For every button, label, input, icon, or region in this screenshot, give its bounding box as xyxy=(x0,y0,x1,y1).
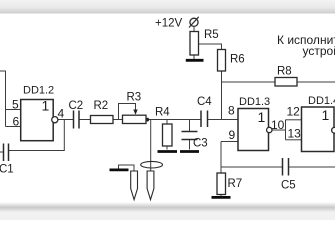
svg-text:R4: R4 xyxy=(155,107,170,119)
capacitor C4 plates xyxy=(201,111,208,128)
wire pin9 down to R7 xyxy=(220,142,222,174)
svg-text:8: 8 xyxy=(228,104,235,118)
wire R5 to R6 xyxy=(199,44,222,50)
ground under R4 xyxy=(158,150,178,153)
wire C1 left stub xyxy=(0,151,4,153)
wire R5 to ground xyxy=(193,55,195,59)
wire C3 bottom stub xyxy=(189,140,191,150)
svg-text:R2: R2 xyxy=(94,100,109,112)
capacitor C1 plates xyxy=(4,144,9,162)
sensor ellipse xyxy=(141,161,163,168)
potentiometer R3 arrow xyxy=(133,110,137,115)
ground bar left electrode xyxy=(110,168,129,171)
ground under R7 xyxy=(212,196,231,199)
svg-text:R5: R5 xyxy=(204,29,219,41)
ground under R5 xyxy=(186,59,204,62)
svg-text:9: 9 xyxy=(229,128,236,142)
svg-text:1: 1 xyxy=(42,98,50,114)
wire C2 to R2 xyxy=(79,119,91,121)
svg-text:1: 1 xyxy=(322,107,330,123)
wire R8 to right edge xyxy=(297,81,335,83)
svg-text:10: 10 xyxy=(271,118,285,132)
resistor R5 xyxy=(190,32,199,56)
wire pin9 xyxy=(221,141,238,143)
wire R3 wiper loop xyxy=(119,104,136,120)
svg-text:DD1.2: DD1.2 xyxy=(23,85,54,97)
svg-text:C3: C3 xyxy=(193,138,208,150)
svg-text:+12V: +12V xyxy=(155,18,183,30)
wire R6 down to node xyxy=(221,71,223,120)
capacitor C2 plates xyxy=(74,111,80,129)
wire R4 bottom stub xyxy=(166,146,168,150)
wire R2 to R3 xyxy=(113,119,123,121)
ground under C3 xyxy=(180,150,199,153)
wire R4 top stub xyxy=(166,120,168,125)
wire pin13 xyxy=(286,139,302,141)
inverter bubble DD1.4 output xyxy=(332,127,335,133)
svg-text:4: 4 xyxy=(58,107,65,121)
wire node to C5 xyxy=(221,166,283,168)
wire input from left edge xyxy=(0,71,6,127)
wire output pin4 to C2 xyxy=(58,119,74,121)
svg-text:13: 13 xyxy=(288,127,302,141)
wire terminal to R5 xyxy=(193,27,195,32)
svg-text:DD1.4: DD1.4 xyxy=(308,95,335,107)
svg-text:C5: C5 xyxy=(281,180,296,192)
svg-text:12: 12 xyxy=(287,105,301,119)
svg-text:R8: R8 xyxy=(277,66,292,78)
wire C3 top stub xyxy=(189,120,191,132)
svg-text:C2: C2 xyxy=(69,100,84,112)
electrode needle right xyxy=(147,171,154,200)
node junction dot after R3 xyxy=(145,118,149,122)
wire pin6 xyxy=(6,126,21,128)
svg-text:DD1.3: DD1.3 xyxy=(239,96,270,108)
wire C4 to pin8 xyxy=(208,119,239,121)
svg-text:6: 6 xyxy=(13,115,20,129)
inverter bubble DD1.2 pin4 xyxy=(52,117,58,123)
wire DD1.3 output to DD1.4 inputs xyxy=(272,120,286,140)
wire sensor drop xyxy=(150,120,152,172)
logic gate DD1.3 box xyxy=(238,109,269,151)
resistor R6 xyxy=(218,50,226,72)
electrode needle left xyxy=(131,171,138,200)
resistor R8 xyxy=(275,78,297,87)
capacitor C3 plates xyxy=(182,132,198,140)
logic gate DD1.4 box xyxy=(302,107,335,152)
terminal circle +12V xyxy=(190,18,198,26)
wire left electrode to ground xyxy=(119,165,135,171)
resistor R4 xyxy=(163,124,173,146)
svg-text:устройству: устройству xyxy=(303,44,335,58)
resistor R2 xyxy=(91,116,114,124)
svg-text:1: 1 xyxy=(258,109,266,125)
svg-text:R7: R7 xyxy=(228,178,243,190)
svg-text:R6: R6 xyxy=(230,54,245,66)
svg-text:C4: C4 xyxy=(197,96,212,108)
inverter bubble DD1.3 pin10 xyxy=(267,127,272,132)
wire node to R8 xyxy=(222,81,276,83)
wire C1 to output node xyxy=(9,120,65,151)
resistor R7 xyxy=(217,173,226,195)
logic gate DD1.2 box xyxy=(21,100,54,141)
svg-text:R3: R3 xyxy=(127,92,142,104)
capacitor C5 plates xyxy=(283,158,289,176)
svg-text:C1: C1 xyxy=(0,164,14,176)
wire R3 to C4 xyxy=(146,119,201,121)
wire C5 to right edge xyxy=(289,166,335,168)
svg-text:5: 5 xyxy=(12,98,19,112)
wire pin5 xyxy=(6,109,21,111)
terminal slash xyxy=(189,17,199,28)
resistor R3 xyxy=(123,115,147,123)
wire pin12 xyxy=(286,119,302,121)
wire R7 bottom stub xyxy=(220,195,222,197)
